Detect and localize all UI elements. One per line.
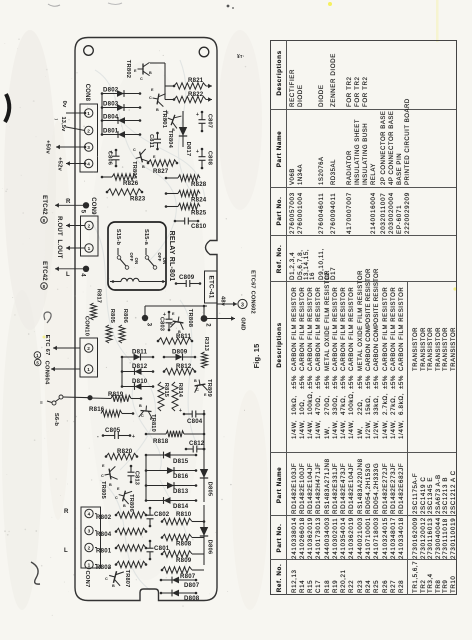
node 5 dot: [83, 202, 89, 208]
transistor TR802: [138, 62, 150, 75]
svg-text:R815: R815: [163, 383, 169, 397]
transistor TR808: [170, 315, 185, 329]
capacitor C803: [168, 312, 170, 319]
node 3 dot: [142, 315, 148, 321]
resistor R824: [166, 193, 178, 195]
svg-text:E: E: [117, 487, 120, 491]
right bus wire: [203, 410, 205, 445]
svg-text:E: E: [134, 69, 137, 73]
svg-text:E: E: [102, 464, 105, 468]
svg-text:C801: C801: [154, 545, 170, 552]
header title PMA-700Z: [391, 15, 453, 29]
svg-text:R811: R811: [176, 333, 191, 340]
svg-text:L: L: [64, 547, 68, 554]
svg-text:B: B: [156, 108, 159, 112]
svg-text:3: 3: [87, 145, 90, 150]
svg-text:R810: R810: [176, 511, 192, 518]
wire node4 to ETC42: [55, 268, 86, 270]
svg-text:RELAY RL-801: RELAY RL-801: [168, 231, 175, 282]
svg-text:D808: D808: [184, 595, 200, 602]
svg-text:8: 8: [43, 284, 46, 289]
svg-text:C808: C808: [207, 151, 213, 165]
yellow specks: [328, 2, 332, 6]
svg-text:R827: R827: [153, 168, 169, 175]
circled 8 top: [41, 217, 48, 224]
svg-text:R822: R822: [188, 91, 204, 98]
header black bar: [7, 18, 390, 23]
diode D805: [203, 445, 205, 502]
svg-text:13,5v: 13,5v: [60, 117, 66, 133]
wire pin1 L.OUT: [66, 247, 85, 249]
svg-text:E: E: [166, 111, 169, 115]
svg-text:R812: R812: [176, 363, 192, 370]
svg-text:R801: R801: [96, 548, 112, 555]
svg-text:+: +: [196, 149, 199, 155]
header right black box: [453, 18, 466, 25]
svg-text:E: E: [151, 88, 154, 92]
svg-text:R825: R825: [191, 210, 207, 217]
svg-text:5: 5: [36, 360, 39, 365]
svg-text:D802: D802: [103, 87, 119, 94]
svg-text:C804: C804: [187, 418, 203, 425]
wire pin2 to 13.5v: [66, 127, 77, 129]
circled 5: [34, 359, 41, 366]
svg-text:C: C: [101, 474, 104, 478]
svg-text:CON7: CON7: [84, 571, 90, 588]
svg-text:3: 3: [88, 528, 91, 533]
capacitor C807: [201, 112, 203, 120]
wire 48V arrow to pin3: [217, 303, 237, 305]
transistor TR801: [151, 92, 165, 107]
svg-text:+: +: [196, 112, 199, 118]
svg-text:B: B: [142, 165, 145, 169]
svg-text:C: C: [133, 148, 136, 152]
svg-text:D801: D801: [103, 128, 119, 135]
svg-text:R826: R826: [123, 180, 139, 187]
svg-text:TR806: TR806: [128, 494, 134, 512]
svg-text:B: B: [149, 71, 152, 75]
svg-text:D804: D804: [103, 114, 119, 121]
svg-text:C: C: [140, 77, 143, 81]
svg-text:D816: D816: [173, 473, 189, 480]
svg-text:C: C: [149, 96, 152, 100]
capacitor C801: [149, 541, 151, 548]
svg-text:TR809: TR809: [206, 379, 212, 397]
margin omega smudge: [44, 312, 51, 323]
svg-text:D815: D815: [173, 458, 189, 465]
circled 3 ETC67: [238, 299, 247, 308]
svg-text:1: 1: [88, 562, 91, 567]
svg-text:R.OUT: R.OUT: [56, 216, 62, 236]
svg-text:B: B: [112, 584, 115, 588]
diode D814: [146, 500, 196, 502]
transistor TR803: [134, 149, 149, 165]
circled 1: [34, 352, 41, 359]
svg-text:C806: C806: [107, 151, 113, 165]
svg-text:D805: D805: [207, 482, 213, 497]
svg-text:E: E: [172, 312, 175, 316]
svg-text:1: 1: [87, 367, 90, 372]
resistor R809: [162, 551, 192, 557]
svg-text:D806: D806: [207, 540, 213, 555]
relay RL-801: [108, 222, 166, 290]
svg-text:TR802: TR802: [125, 60, 131, 78]
transistor TR809: [193, 378, 208, 392]
margin squiggle bottom: [31, 562, 40, 584]
resistor R826: [102, 176, 112, 178]
svg-text:R823: R823: [130, 196, 146, 203]
svg-text:D809: D809: [172, 349, 188, 356]
svg-text:CON10: CON10: [84, 316, 90, 336]
diode D807: [161, 579, 196, 581]
svg-text:3: 3: [241, 302, 244, 308]
svg-text:L: L: [66, 271, 70, 278]
svg-text:R818: R818: [153, 438, 169, 445]
svg-text:R: R: [64, 508, 69, 515]
svg-text:2: 2: [87, 346, 90, 351]
svg-text:TR808: TR808: [187, 309, 193, 328]
svg-text:Fig. 15: Fig. 15: [252, 344, 261, 369]
svg-text:B: B: [139, 404, 142, 408]
resistor R823: [107, 189, 142, 195]
svg-text:TR807: TR807: [124, 570, 130, 588]
wire TR802: [150, 62, 165, 64]
svg-text:CON8: CON8: [84, 84, 90, 102]
svg-text:8: 8: [43, 218, 46, 223]
switch S6-b: [59, 395, 63, 399]
svg-text:4: 4: [88, 511, 91, 516]
parts tables (rotated 90 deg CCW): [270, 40, 455, 595]
diode D808: [161, 592, 196, 594]
svg-text:1: 1: [36, 353, 39, 358]
transistor TR807: [107, 568, 123, 585]
svg-text:C: C: [164, 119, 167, 123]
svg-text:C810: C810: [191, 223, 207, 230]
left bus diodes mid: [121, 357, 123, 387]
svg-text:0v: 0v: [61, 101, 67, 108]
pcb ghost traces (decorative): [90, 60, 205, 590]
svg-text:S6-b: S6-b: [53, 413, 59, 427]
svg-text:B: B: [109, 483, 112, 487]
svg-text:C811: C811: [148, 134, 154, 148]
resistor R808: [162, 534, 192, 540]
wire node3 up-right: [144, 306, 146, 318]
noise: [2, 38, 246, 616]
svg-text:1: 1: [87, 111, 90, 116]
svg-text:R817: R817: [96, 289, 102, 303]
wire pin1 to 0v: [66, 112, 85, 114]
PCB board outline with edge notches: [75, 38, 217, 601]
diode D813: [146, 485, 196, 487]
svg-text:C: C: [196, 388, 199, 392]
capacitor C810: [175, 220, 185, 222]
diode D815: [146, 454, 196, 456]
connector CON7: [81, 507, 101, 568]
svg-text:R814: R814: [177, 383, 183, 398]
resistor R811: [158, 338, 192, 344]
svg-text:ETC42: ETC42: [41, 261, 47, 281]
svg-text:C: C: [115, 496, 118, 500]
wire pin2 left arrow: [53, 347, 80, 349]
svg-text:ON: ON: [162, 258, 167, 265]
svg-text:D817: D817: [185, 142, 191, 157]
wire R821 left: [165, 85, 174, 87]
svg-text:D807: D807: [184, 582, 200, 589]
svg-text:B: B: [123, 504, 126, 508]
circled 8 bottom: [41, 283, 48, 290]
connector CON8: [80, 104, 98, 172]
capacitor C813: [130, 466, 132, 472]
ETC-41 connector label: [205, 271, 218, 303]
svg-text:CON604: CON604: [43, 361, 49, 385]
bus wire mid: [203, 306, 205, 319]
wire node5 to ETC42: [55, 204, 86, 206]
svg-text:≡: ≡: [40, 400, 43, 406]
svg-text:R809: R809: [176, 557, 192, 564]
left bus of diodes: [101, 94, 103, 135]
wire pin2 R.OUT: [66, 225, 85, 227]
svg-text:¥ᴛ·: ¥ᴛ·: [237, 54, 245, 60]
transistor TR805: [103, 466, 117, 481]
mounting hole top-left: [84, 46, 94, 56]
svg-text:R807: R807: [180, 573, 196, 580]
svg-text:S15-a: S15-a: [143, 229, 149, 246]
wire to S6-b: [63, 396, 90, 399]
margin crescent mark: [5, 94, 9, 122]
svg-text:C: C: [170, 322, 173, 326]
transistor TR810: [139, 405, 153, 418]
svg-text:OFF: OFF: [157, 253, 162, 262]
svg-text:R805: R805: [109, 309, 115, 323]
transistor TR804: [166, 112, 182, 129]
svg-text:R808: R808: [176, 541, 192, 548]
diode D806: [203, 505, 205, 560]
svg-text:C803: C803: [159, 317, 165, 331]
svg-text:D814: D814: [173, 503, 189, 510]
svg-text:4: 4: [80, 273, 86, 277]
wire pin4 +52v arrow: [66, 163, 85, 165]
svg-text:C: C: [105, 577, 108, 581]
connector CON9: [81, 216, 99, 256]
connector CON10: [80, 338, 98, 377]
capacitor C811: [157, 133, 159, 139]
svg-text:TR805: TR805: [100, 481, 106, 499]
svg-text:D803: D803: [103, 101, 119, 108]
svg-text:1: 1: [88, 246, 91, 251]
wire pin3 +50v arrow: [56, 146, 85, 148]
svg-text:2: 2: [88, 223, 91, 228]
svg-text:E: E: [153, 155, 156, 159]
CON7 pin wires: [95, 513, 97, 516]
svg-text:+52v: +52v: [57, 157, 63, 171]
svg-text:C: C: [141, 414, 144, 418]
resistor R828: [166, 177, 178, 179]
svg-text:R824: R824: [191, 197, 207, 204]
node 2 dot: [201, 315, 208, 322]
svg-text:2: 2: [205, 323, 211, 327]
capacitor C804: [184, 413, 192, 415]
svg-text:R828: R828: [191, 181, 207, 188]
svg-text:R804: R804: [96, 531, 112, 538]
svg-text:R313: R313: [203, 337, 209, 351]
svg-text:C809: C809: [179, 274, 195, 281]
svg-text:R802: R802: [96, 514, 112, 521]
svg-text:ON: ON: [134, 258, 139, 265]
resistor R807: [162, 567, 192, 573]
svg-text:+: +: [132, 434, 135, 440]
svg-text:D813: D813: [173, 488, 189, 495]
node 4 dot: [83, 266, 89, 272]
svg-text:ETC42: ETC42: [41, 195, 47, 215]
svg-text:S15-b: S15-b: [115, 229, 121, 246]
diode D817: [182, 111, 184, 147]
svg-text:2: 2: [87, 128, 90, 133]
svg-text:L.OUT: L.OUT: [56, 240, 62, 259]
svg-text:ETC67 CON602: ETC67 CON602: [250, 270, 256, 314]
svg-text:TR804: TR804: [167, 130, 173, 148]
svg-text:3: 3: [146, 323, 152, 327]
svg-text:C802: C802: [154, 511, 170, 518]
transistor TR806: [117, 488, 132, 504]
capacitor C806: [115, 150, 117, 156]
capacitor C808: [201, 149, 203, 157]
svg-text:C813: C813: [134, 471, 140, 485]
wire GND arrow: [207, 318, 235, 320]
wire pin1 left arrow: [51, 368, 80, 370]
svg-text:B: B: [194, 379, 197, 383]
svg-text:R821: R821: [188, 77, 204, 84]
svg-text:2: 2: [88, 545, 91, 550]
svg-text:E: E: [108, 566, 111, 570]
resistor R825: [166, 206, 178, 208]
svg-text:R: R: [66, 198, 71, 205]
svg-text:48v: 48v: [220, 296, 226, 307]
svg-text:GND: GND: [240, 317, 246, 330]
capacitor C802: [149, 508, 151, 515]
svg-text:+: +: [179, 408, 182, 414]
mounting hole top-right: [199, 47, 209, 57]
svg-text:CON9: CON9: [90, 197, 96, 215]
svg-text:C807: C807: [207, 114, 213, 128]
left bus D815-D814: [145, 455, 147, 501]
resistor R827: [148, 160, 177, 166]
svg-text:5: 5: [80, 210, 86, 214]
diode D816: [146, 470, 196, 472]
resistor R818: [146, 433, 166, 435]
svg-text:R806: R806: [122, 309, 128, 323]
svg-text:-: -: [97, 434, 99, 440]
svg-text:4: 4: [87, 161, 90, 166]
svg-text:OFF: OFF: [129, 253, 134, 262]
svg-text:ETC-41: ETC-41: [207, 276, 214, 299]
svg-text:+50v: +50v: [45, 140, 51, 154]
svg-text:TR810: TR810: [150, 414, 156, 432]
